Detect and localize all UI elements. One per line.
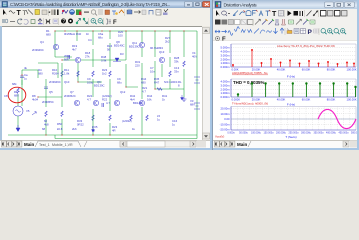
- svg-text:0.00: 0.00: [224, 117, 230, 121]
- svg-text:680: 680: [46, 33, 51, 37]
- svg-text:100.00K: 100.00K: [346, 98, 356, 102]
- svg-text:T: T: [272, 11, 277, 18]
- svg-text:16k: 16k: [147, 98, 152, 102]
- svg-text:C:\WCB-DATA\Ratio=\switching d: C:\WCB-DATA\Ratio=\switching distortion\…: [10, 2, 170, 7]
- svg-text:1h: 1h: [86, 32, 90, 36]
- svg-text:Vout(V): Vout(V): [215, 134, 224, 138]
- svg-text:Distortion Analysis: Distortion Analysis: [224, 2, 258, 7]
- svg-text:D3: D3: [120, 52, 124, 56]
- svg-text:Q4: Q4: [40, 40, 44, 44]
- svg-text:20.00K: 20.00K: [252, 98, 261, 102]
- svg-text:1u: 1u: [172, 123, 176, 127]
- svg-text:Like-Sony TA-F7.9_ZNy-Pot_Wirt: Like-Sony TA-F7.9_ZNy-Pot_Wirtc THD OK: [277, 44, 335, 48]
- svg-text:10.00m: 10.00m: [221, 112, 231, 116]
- svg-text:100.000u: 100.000u: [251, 131, 262, 134]
- svg-text:Q7: Q7: [70, 90, 74, 94]
- svg-text:R40: R40: [76, 32, 82, 36]
- svg-text:C4: C4: [88, 38, 92, 42]
- svg-text:4R: 4R: [112, 129, 116, 133]
- svg-text:k0.8: k0.8: [57, 127, 63, 131]
- svg-text:2k: 2k: [92, 129, 96, 133]
- svg-text:A02(44055)(2x2),70955...No: A02(44055)(2x2),70955...No: [232, 71, 268, 75]
- svg-text:680: 680: [38, 72, 43, 76]
- svg-text:1k: 1k: [162, 98, 166, 102]
- svg-text:2N3946C: 2N3946C: [32, 48, 44, 52]
- svg-text:Main: Main: [237, 142, 248, 147]
- svg-text:BD139C: BD139C: [94, 84, 105, 88]
- svg-text:150.000u: 150.000u: [264, 131, 275, 134]
- svg-text:100u: 100u: [87, 81, 94, 85]
- svg-text:0N/68uH: 0N/68uH: [64, 32, 75, 36]
- svg-text:BD140C: BD140C: [114, 44, 125, 48]
- svg-text:-10.00m: -10.00m: [220, 122, 231, 126]
- svg-text:4k8: 4k8: [44, 123, 49, 127]
- svg-text:0R22: 0R22: [77, 123, 84, 127]
- svg-text:68V: 68V: [190, 103, 195, 107]
- svg-text:220: 220: [135, 64, 140, 68]
- svg-text:P: P: [308, 29, 313, 36]
- svg-text:56: 56: [107, 48, 111, 52]
- svg-text:68u: 68u: [117, 81, 122, 85]
- svg-text:T-Nons/N0(1ouu), h0000, (N): T-Nons/N0(1ouu), h0000, (N): [232, 101, 268, 105]
- svg-text:BD140C: BD140C: [133, 101, 144, 105]
- svg-text:680: 680: [141, 81, 146, 85]
- svg-text:0.000u: 0.000u: [227, 131, 235, 134]
- svg-text:680: 680: [14, 94, 19, 98]
- svg-text:200.000u: 200.000u: [276, 131, 287, 134]
- svg-text:2.000m: 2.000m: [221, 87, 231, 91]
- svg-text:Q13: Q13: [159, 50, 165, 54]
- svg-text:300.000u: 300.000u: [301, 131, 312, 134]
- svg-text:2N6052C: 2N6052C: [64, 94, 76, 98]
- svg-text:R47: R47: [154, 81, 160, 85]
- svg-text:50.000u: 50.000u: [239, 131, 248, 134]
- svg-text:0.9k: 0.9k: [101, 59, 107, 63]
- svg-text:5.000m: 5.000m: [221, 46, 231, 50]
- svg-text:4.7: 4.7: [106, 101, 110, 105]
- svg-text:4.7: 4.7: [142, 90, 146, 94]
- svg-text:F (Hz): F (Hz): [287, 74, 295, 78]
- svg-text:R50: R50: [57, 122, 63, 126]
- svg-text:BD139C: BD139C: [129, 45, 140, 49]
- svg-text:1.000m: 1.000m: [221, 61, 231, 65]
- svg-text:1u: 1u: [24, 77, 28, 81]
- svg-text:4.000m: 4.000m: [221, 80, 231, 84]
- svg-text:1u: 1u: [157, 118, 161, 122]
- svg-text:1.8k: 1.8k: [64, 72, 70, 76]
- svg-text:F (Hz): F (Hz): [287, 103, 295, 107]
- svg-text:Q10: Q10: [64, 80, 70, 84]
- svg-text:33n: 33n: [174, 70, 179, 74]
- svg-text:3.000m: 3.000m: [221, 53, 231, 57]
- svg-text:2N3055C: 2N3055C: [42, 100, 54, 104]
- svg-text:+: +: [92, 19, 94, 23]
- svg-text:1k2: 1k2: [102, 72, 107, 76]
- svg-text:68: 68: [42, 127, 46, 131]
- svg-text:60.00K: 60.00K: [302, 98, 311, 102]
- svg-text:40.00K: 40.00K: [277, 98, 286, 102]
- svg-text:68u: 68u: [98, 36, 103, 40]
- svg-text:20.00m: 20.00m: [221, 107, 231, 111]
- svg-text:8: 8: [178, 84, 180, 88]
- svg-text:Mobile_1,VR: Mobile_1,VR: [52, 143, 73, 147]
- svg-text:400.000u: 400.000u: [326, 131, 337, 134]
- svg-text:C8: C8: [4, 94, 8, 98]
- svg-text:Main: Main: [24, 142, 35, 147]
- svg-text:Q12: Q12: [120, 90, 126, 94]
- svg-text:?: ?: [62, 19, 65, 25]
- svg-text:2N3946C: 2N3946C: [49, 80, 61, 84]
- svg-text:R264: R264: [52, 72, 59, 76]
- svg-text:3.000m: 3.000m: [221, 83, 231, 87]
- svg-text:F: F: [113, 20, 117, 26]
- svg-text:33k: 33k: [174, 60, 179, 64]
- svg-text:2k2: 2k2: [165, 40, 170, 44]
- svg-text:40V: 40V: [192, 55, 197, 59]
- svg-text:1.000m: 1.000m: [221, 91, 231, 95]
- svg-text:96.%&8#4: 96.%&8#4: [150, 46, 163, 50]
- svg-text:100: 100: [118, 34, 123, 38]
- svg-text:4k7: 4k7: [72, 48, 77, 52]
- svg-text:60.00K: 60.00K: [302, 68, 311, 72]
- svg-text:68k: 68k: [12, 82, 17, 86]
- svg-text:V5: V5: [26, 109, 30, 113]
- svg-text:0.000K: 0.000K: [232, 98, 241, 102]
- svg-text:80.00K: 80.00K: [327, 98, 336, 102]
- svg-text:2.000m: 2.000m: [221, 57, 231, 61]
- svg-text:4k04: 4k04: [32, 98, 39, 102]
- svg-text:250.000u: 250.000u: [289, 131, 300, 134]
- svg-text:1k: 1k: [132, 127, 136, 131]
- svg-text:0.000m: 0.000m: [221, 65, 231, 69]
- svg-text:0.000m: 0.000m: [221, 95, 231, 99]
- svg-text:T (Secs): T (Secs): [285, 135, 296, 139]
- svg-text:2k6: 2k6: [72, 127, 77, 131]
- svg-text:THD = 0,0035%: THD = 0,0035%: [233, 80, 264, 85]
- svg-text:-20.00m: -20.00m: [220, 128, 231, 132]
- svg-text:350.000u: 350.000u: [314, 131, 325, 134]
- svg-text:27k: 27k: [85, 55, 90, 59]
- svg-text:450.000u: 450.000u: [339, 131, 350, 134]
- svg-text:Test_1: Test_1: [39, 143, 50, 147]
- svg-text:80.00K: 80.00K: [327, 68, 336, 72]
- svg-text:N/0.1100/4: N/0.1100/4: [164, 80, 178, 84]
- svg-text:4k: 4k: [24, 66, 28, 70]
- svg-text:Q5: Q5: [49, 90, 53, 94]
- svg-text:10n: 10n: [150, 70, 155, 74]
- svg-text:T: T: [17, 10, 22, 17]
- svg-text:50k: 50k: [64, 58, 69, 62]
- svg-text:4.000m: 4.000m: [221, 50, 231, 54]
- svg-text:(A/R22): (A/R22): [122, 119, 132, 123]
- svg-text:100.00K: 100.00K: [346, 68, 356, 72]
- svg-text:40.00K: 40.00K: [277, 68, 286, 72]
- svg-text:4.7: 4.7: [87, 98, 91, 102]
